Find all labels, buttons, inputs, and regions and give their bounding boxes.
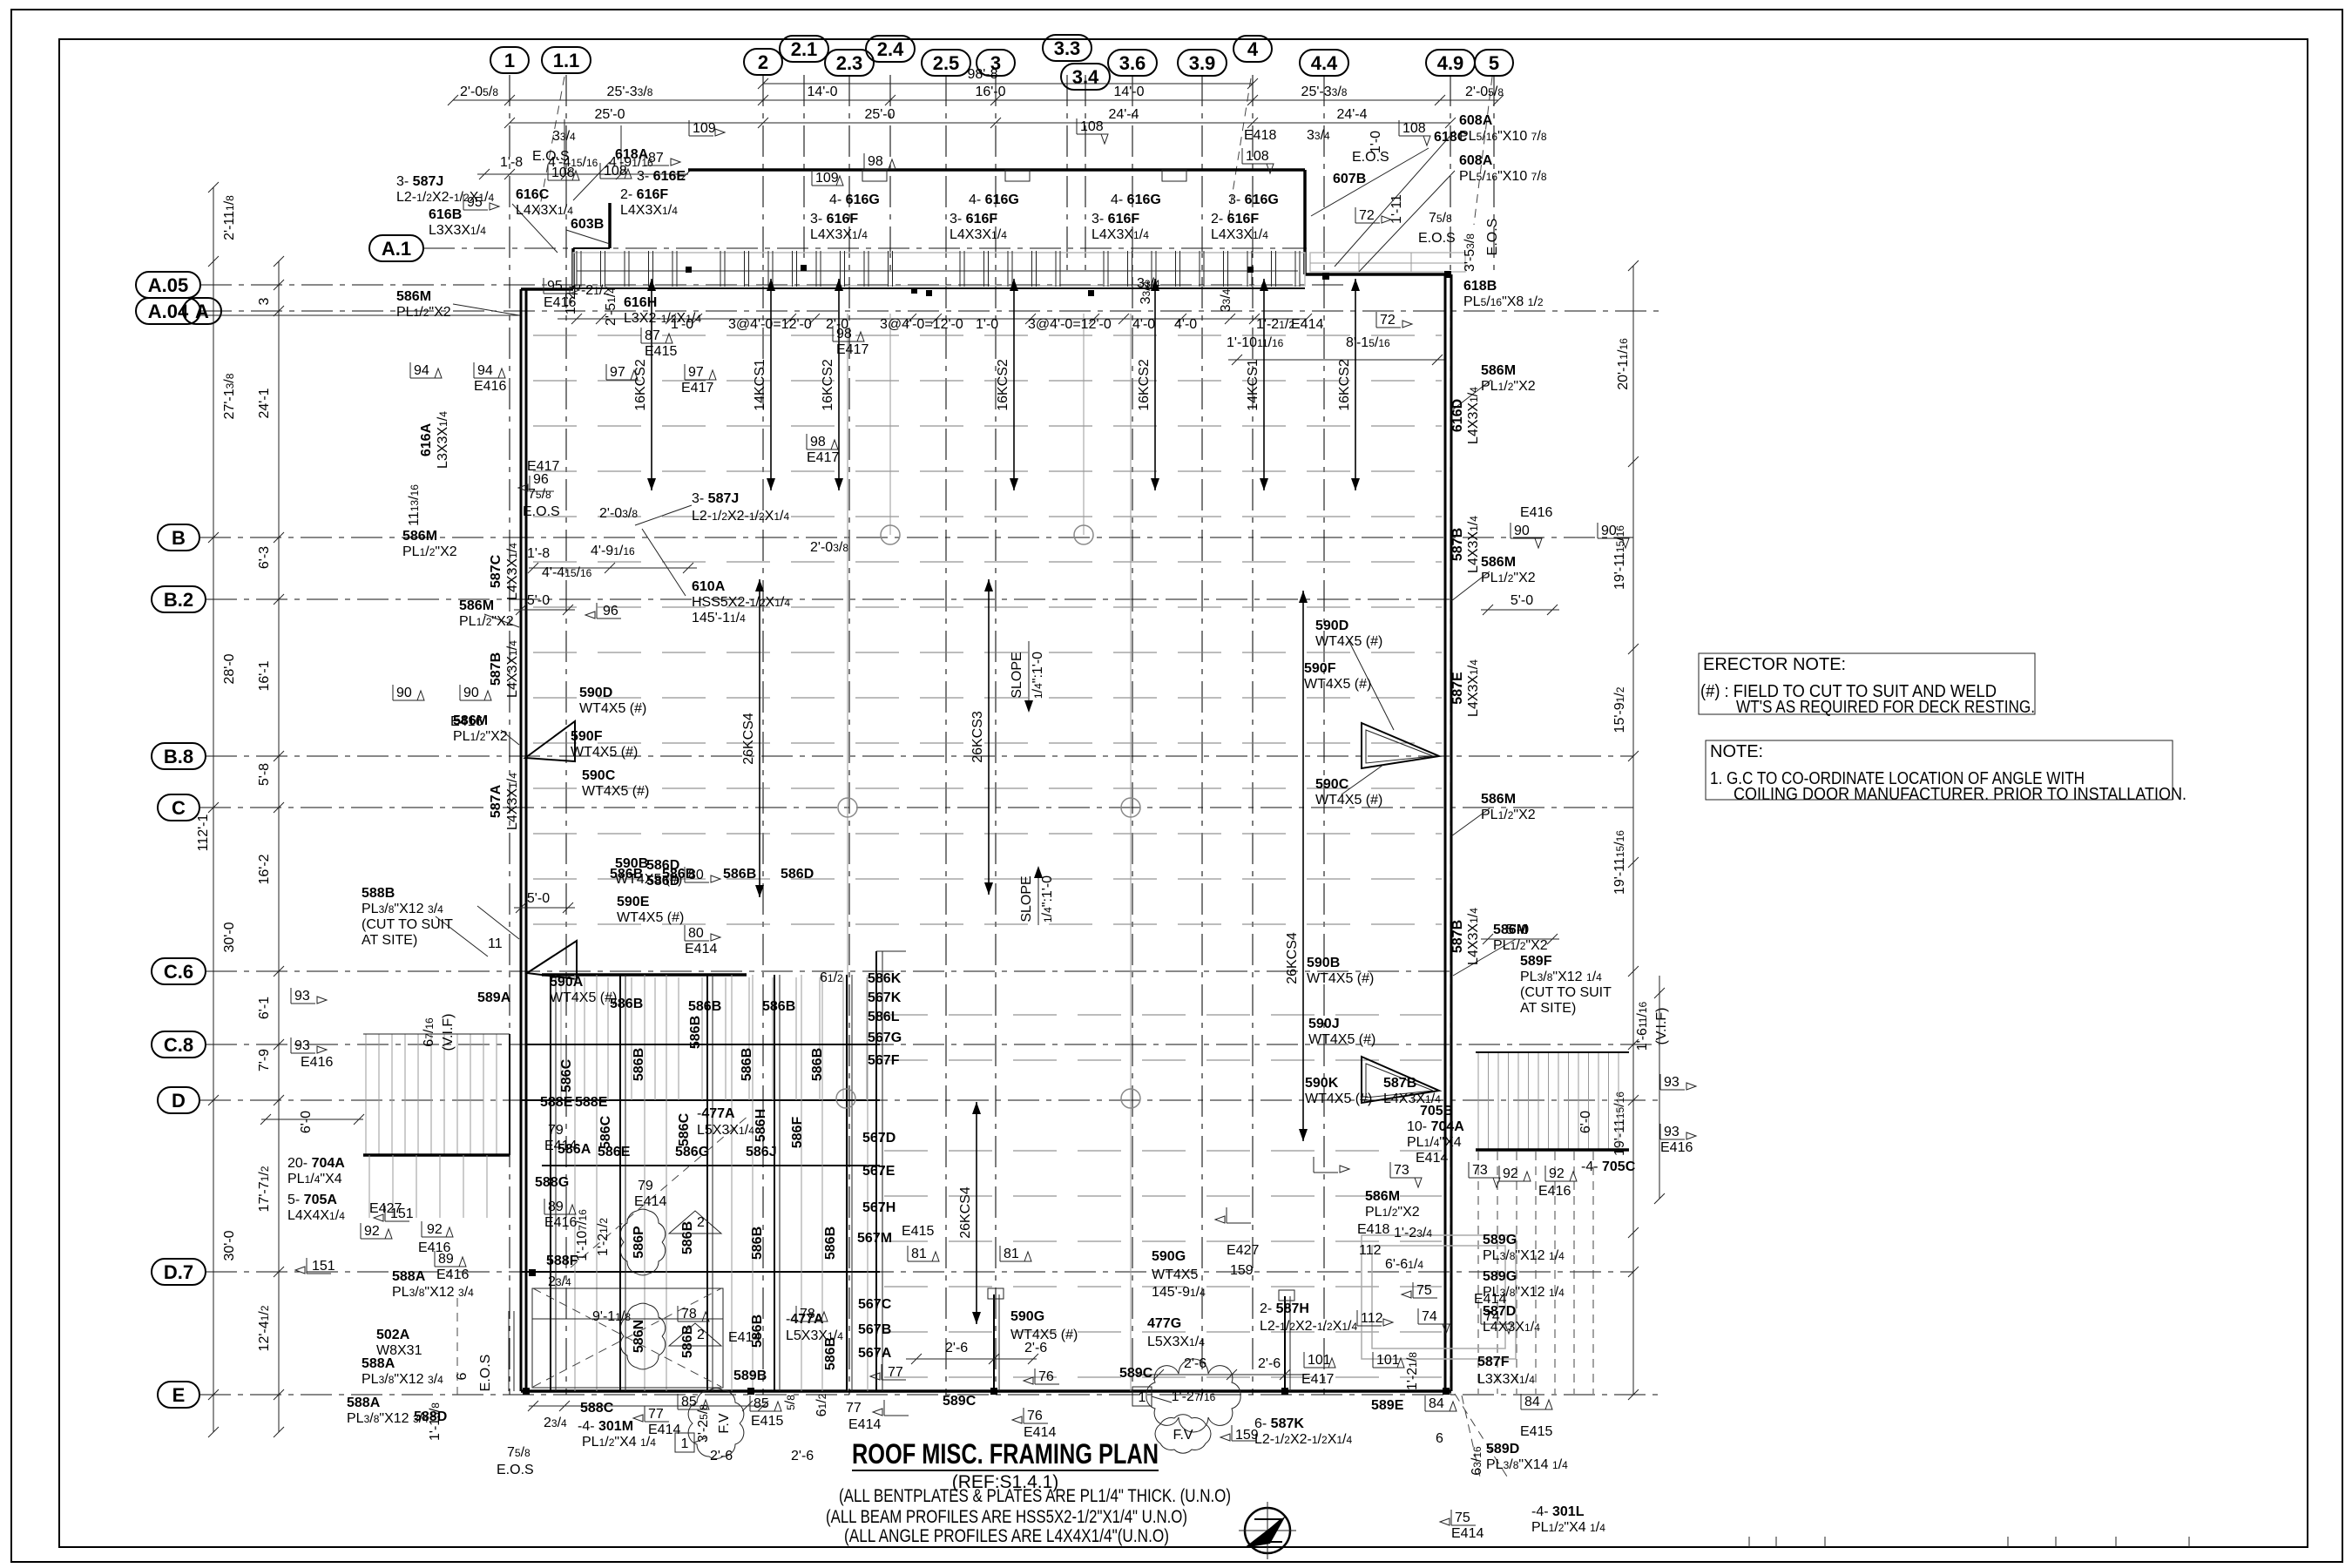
svg-text:98: 98 [836,327,852,341]
svg-text:75/8: 75/8 [528,487,551,502]
svg-text:25'-33/8: 25'-33/8 [1301,84,1348,99]
svg-text:16KCS2: 16KCS2 [821,359,835,411]
svg-text:567M: 567M [857,1231,892,1246]
svg-text:26KCS4: 26KCS4 [741,713,756,765]
svg-text:588G: 588G [535,1175,569,1190]
svg-text:2'-6: 2'-6 [710,1449,733,1463]
svg-text:616D: 616D [1450,399,1465,432]
svg-text:PL1/2"X2: PL1/2"X2 [1481,379,1536,394]
svg-text:95: 95 [547,279,563,294]
svg-text:74: 74 [1422,1309,1437,1324]
svg-text:2'-03/8: 2'-03/8 [810,540,848,555]
svg-text:E.O.S: E.O.S [1418,231,1456,246]
svg-text:586N: 586N [632,1320,646,1353]
svg-text:72: 72 [1380,313,1396,328]
interior beam lines [847,314,848,1391]
svg-text:16'-2: 16'-2 [257,854,272,884]
svg-text:588E: 588E [575,1095,608,1110]
svg-text:3- 616F: 3- 616F [810,212,858,226]
svg-text:2.5: 2.5 [933,52,960,74]
svg-text:4'-0: 4'-0 [1174,317,1197,332]
svg-text:101: 101 [1308,1353,1331,1368]
svg-text:PL3/8"X12 3/4: PL3/8"X12 3/4 [362,1372,443,1387]
svg-text:L4X3X1/4: L4X3X1/4 [1466,387,1481,444]
svg-text:E.O.S: E.O.S [497,1463,534,1477]
svg-text:WT4X5 (#): WT4X5 (#) [571,745,638,760]
svg-text:5'-0: 5'-0 [1511,593,1533,608]
svg-text:PL1/2"X2: PL1/2"X2 [1481,808,1536,822]
svg-text:3@4'-0=12'-0: 3@4'-0=12'-0 [880,317,963,332]
svg-text:89: 89 [548,1200,564,1214]
svg-text:1'-15/8: 1'-15/8 [428,1402,443,1441]
svg-text:73: 73 [1394,1163,1409,1178]
svg-text:E.O.S: E.O.S [523,504,560,519]
svg-text:93: 93 [1664,1075,1680,1090]
svg-text:L4X3X1/4: L4X3X1/4 [1466,659,1481,717]
svg-text:19'-1115/16: 19'-1115/16 [1612,1092,1627,1156]
svg-text:589G: 589G [1483,1269,1517,1284]
svg-text:6'-3: 6'-3 [257,546,272,569]
svg-text:1'-2: 1'-2 [564,292,578,314]
svg-text:90: 90 [1601,524,1617,538]
svg-text:586P: 586P [632,1226,646,1259]
svg-text:26KCS3: 26KCS3 [970,711,985,763]
svg-text:590K: 590K [1305,1076,1339,1091]
svg-text:28'-0: 28'-0 [222,653,237,684]
svg-text:587B: 587B [1450,920,1465,953]
svg-text:590C: 590C [1315,777,1349,792]
svg-text:586B: 586B [823,1337,838,1370]
svg-text:586B: 586B [823,1227,838,1260]
svg-text:PL1/4"X4: PL1/4"X4 [287,1172,342,1186]
svg-text:586B: 586B [688,1016,703,1049]
svg-text:586M: 586M [1493,923,1528,937]
slope annotations [1028,641,1030,707]
svg-text:3.3: 3.3 [1054,37,1081,59]
svg-text:145'-11/4: 145'-11/4 [692,611,746,625]
svg-text:586M: 586M [1365,1189,1400,1204]
svg-text:4.4: 4.4 [1311,52,1338,74]
svg-text:E415: E415 [751,1414,783,1429]
svg-text:PL3/8"X14 1/4: PL3/8"X14 1/4 [1486,1457,1568,1472]
svg-text:7'-9: 7'-9 [257,1049,272,1071]
joist designation arrows [651,279,652,490]
586 joist framing area [542,973,747,977]
svg-text:586E: 586E [598,1145,631,1159]
svg-text:4: 4 [1247,38,1259,60]
svg-text:586B: 586B [740,1048,754,1081]
svg-text:589B: 589B [733,1369,767,1383]
svg-text:(CUT TO SUIT: (CUT TO SUIT [362,917,453,932]
svg-text:80: 80 [688,926,704,941]
svg-text:E417: E417 [681,381,713,395]
svg-text:E415: E415 [902,1224,934,1239]
svg-text:E414: E414 [1474,1292,1506,1307]
column circles [881,525,900,544]
svg-text:586M: 586M [1481,792,1516,807]
svg-text:17'-71/2: 17'-71/2 [257,1166,272,1212]
svg-text:PL1/2"X2: PL1/2"X2 [402,544,457,559]
svg-text:E416: E416 [474,379,506,394]
svg-text:145'-91/4: 145'-91/4 [1152,1285,1206,1300]
svg-text:96: 96 [603,604,618,618]
svg-text:L4X3X1/4: L4X3X1/4 [505,773,520,830]
svg-text:92: 92 [427,1222,443,1237]
svg-text:PL3/8"X12 3/4: PL3/8"X12 3/4 [362,902,443,916]
svg-text:586B: 586B [680,1221,695,1254]
svg-text:63/16: 63/16 [1470,1446,1484,1476]
svg-text:610A: 610A [692,579,726,594]
left dimension chains [213,187,214,1432]
svg-text:33/4: 33/4 [552,129,576,144]
svg-text:590D: 590D [579,686,612,700]
svg-text:2- 616F: 2- 616F [620,187,668,202]
svg-text:587C: 587C [489,554,504,588]
svg-text:587F: 587F [1477,1355,1510,1369]
svg-text:E427: E427 [1227,1243,1259,1258]
svg-text:108: 108 [551,166,575,180]
svg-text:10- 704A: 10- 704A [1407,1119,1464,1134]
svg-text:586B: 586B [723,867,756,882]
svg-text:14'-0: 14'-0 [1113,84,1144,99]
svg-text:6'-1: 6'-1 [257,997,272,1019]
svg-text:567E: 567E [862,1164,896,1179]
svg-text:WT4X5 (#): WT4X5 (#) [579,701,646,716]
svg-text:L4X3X1/4: L4X3X1/4 [1092,227,1149,242]
svg-text:80: 80 [688,868,704,882]
svg-text:567A: 567A [858,1346,892,1361]
svg-text:D: D [172,1090,186,1112]
svg-text:90: 90 [463,686,479,700]
svg-text:5'-8: 5'-8 [257,763,272,786]
svg-text:L4X3X1/4: L4X3X1/4 [1466,516,1481,573]
svg-text:151: 151 [390,1206,414,1221]
svg-text:587A: 587A [489,784,504,818]
svg-text:E418: E418 [1244,128,1276,143]
svg-text:76: 76 [1027,1409,1043,1423]
svg-text:588A: 588A [392,1269,426,1284]
svg-text:2.4: 2.4 [877,38,904,60]
svg-text:6: 6 [455,1372,470,1380]
svg-text:75/8: 75/8 [1429,211,1452,226]
svg-text:L4X3X1/4: L4X3X1/4 [516,203,573,218]
svg-text:589C: 589C [943,1394,977,1409]
svg-text:D.7: D.7 [164,1261,193,1283]
erector note box [1699,653,2035,714]
svg-text:2'-51/4: 2'-51/4 [604,287,618,326]
svg-text:90: 90 [1514,524,1530,538]
svg-text:3- 616E: 3- 616E [637,169,686,184]
svg-text:586K: 586K [868,971,902,986]
svg-text:16KCS2: 16KCS2 [633,359,648,411]
svg-text:8'-15/16: 8'-15/16 [1346,335,1390,350]
svg-text:75: 75 [1455,1511,1470,1525]
svg-text:2'-111/8: 2'-111/8 [222,195,237,240]
svg-text:AT SITE): AT SITE) [1520,1001,1576,1016]
svg-text:567D: 567D [862,1131,896,1146]
svg-text:586J: 586J [746,1145,777,1159]
svg-text:A.1: A.1 [382,238,411,260]
svg-text:81: 81 [911,1247,927,1261]
svg-text:WT4X5 (#): WT4X5 (#) [1305,1092,1372,1106]
svg-text:590F: 590F [1304,661,1336,676]
svg-text:586H: 586H [754,1109,768,1142]
svg-text:587B: 587B [1383,1076,1416,1091]
svg-text:16KCS2: 16KCS2 [1337,359,1352,411]
svg-text:2.3: 2.3 [836,52,863,74]
svg-text:PL5/16"X10 7/8: PL5/16"X10 7/8 [1459,129,1547,144]
svg-text:85: 85 [681,1395,697,1409]
svg-text:2'-6: 2'-6 [1184,1356,1206,1371]
svg-text:PL1/2"X2: PL1/2"X2 [1493,938,1548,953]
svg-text:3- 616F: 3- 616F [950,212,997,226]
svg-text:586L: 586L [868,1010,900,1024]
svg-text:PL1/2"X4 1/4: PL1/2"X4 1/4 [1531,1520,1605,1535]
svg-text:1'-8: 1'-8 [527,546,550,561]
svg-text:L2-1/2X2-1/2X1/4: L2-1/2X2-1/2X1/4 [1254,1432,1353,1447]
svg-text:L3X3X1/4: L3X3X1/4 [436,411,450,469]
svg-text:93: 93 [294,989,310,1004]
svg-text:85: 85 [754,1396,769,1411]
svg-text:3: 3 [257,297,272,305]
svg-text:6'-0: 6'-0 [299,1111,314,1133]
svg-text:2'-05/8: 2'-05/8 [460,84,498,99]
svg-text:30'-0: 30'-0 [222,922,237,952]
svg-text:608A: 608A [1459,153,1493,168]
svg-text:1'-21/8: 1'-21/8 [1405,1352,1420,1390]
svg-text:-477A: -477A [786,1312,824,1327]
svg-text:616B: 616B [429,207,462,222]
svg-text:5/8: 5/8 [783,1395,798,1410]
svg-text:112'-1: 112'-1 [196,814,211,852]
svg-text:5: 5 [1489,52,1499,74]
svg-text:-4- 705C: -4- 705C [1581,1159,1636,1174]
svg-text:92: 92 [1503,1166,1518,1181]
svg-text:588E: 588E [540,1095,573,1110]
svg-text:11: 11 [488,936,503,951]
svg-text:2.1: 2.1 [791,38,818,60]
svg-text:590G: 590G [1010,1309,1044,1324]
svg-text:108: 108 [1246,149,1269,164]
svg-text:E.O.S: E.O.S [478,1355,493,1392]
svg-text:1: 1 [681,1436,689,1451]
svg-text:603B: 603B [571,217,604,232]
svg-text:3- 616F: 3- 616F [1092,212,1139,226]
svg-text:77: 77 [648,1407,664,1422]
svg-text:E416: E416 [1660,1140,1693,1155]
roof deck lines [533,335,1442,336]
svg-text:L4X3X1/4: L4X3X1/4 [810,227,868,242]
svg-text:25'-0: 25'-0 [864,107,895,122]
svg-text:2'-05/8: 2'-05/8 [1465,84,1504,99]
svg-text:586M: 586M [402,529,437,544]
svg-text:L4X3X1/4: L4X3X1/4 [505,640,520,698]
svg-text:586G: 586G [675,1145,709,1159]
svg-text:2: 2 [697,1215,705,1230]
svg-text:PL5/16"X10 7/8: PL5/16"X10 7/8 [1459,169,1547,184]
svg-text:PL3/8"X12 1/4: PL3/8"X12 1/4 [1483,1248,1565,1263]
svg-text:567B: 567B [858,1322,891,1337]
svg-text:(V.I.F): (V.I.F) [1654,1008,1669,1045]
svg-text:588A: 588A [362,1356,395,1371]
svg-text:1'-8: 1'-8 [500,155,523,170]
svg-text:14'-0: 14'-0 [807,84,837,99]
svg-text:A.04: A.04 [148,301,189,322]
svg-text:23/4: 23/4 [548,1274,571,1289]
svg-text:3- 616G: 3- 616G [1228,193,1279,207]
svg-text:E414: E414 [648,1423,680,1437]
svg-text:151: 151 [312,1259,335,1274]
south-east detail rects [1362,1235,1516,1359]
svg-text:16KCS2: 16KCS2 [996,359,1010,411]
svg-text:586M: 586M [1481,363,1516,378]
svg-text:WT'S AS REQUIRED FOR DECK REST: WT'S AS REQUIRED FOR DECK RESTING. [1736,698,2035,717]
svg-text:2: 2 [758,51,768,73]
svg-text:3@4'-0=12'-0: 3@4'-0=12'-0 [1028,317,1112,332]
svg-text:2'-6: 2'-6 [945,1341,968,1355]
svg-text:33/4: 33/4 [1307,128,1330,143]
svg-text:78: 78 [681,1307,697,1321]
svg-text:616H: 616H [624,295,657,310]
svg-text:3@4'-0=12'-0: 3@4'-0=12'-0 [728,317,812,332]
svg-text:E418: E418 [1357,1222,1389,1237]
svg-text:108: 108 [604,164,627,179]
svg-text:E414: E414 [1451,1526,1484,1541]
svg-text:567K: 567K [868,990,902,1005]
svg-text:616A: 616A [419,422,434,456]
svg-text:590C: 590C [582,768,616,783]
svg-text:(ALL BENTPLATES & PLATES ARE: (ALL BENTPLATES & PLATES ARE PL1/4" THIC… [839,1486,1231,1506]
svg-text:14KCS1: 14KCS1 [1246,359,1260,411]
svg-text:E416: E416 [1520,505,1552,520]
svg-text:4- 616G: 4- 616G [829,193,880,207]
svg-text:586B: 586B [632,1048,646,1081]
svg-text:98'-8: 98'-8 [967,67,997,82]
svg-text:E416: E416 [436,1267,469,1282]
svg-text:L4X3X1/4: L4X3X1/4 [1466,908,1481,965]
svg-text:30'-0: 30'-0 [222,1230,237,1260]
svg-text:587B: 587B [1450,528,1465,561]
revision clouds [620,1209,665,1275]
svg-text:PL1/2"X2: PL1/2"X2 [1481,571,1536,585]
svg-text:586B: 586B [610,867,643,882]
svg-text:589F: 589F [1520,954,1552,969]
svg-text:E414: E414 [1291,317,1323,332]
svg-text:4.9: 4.9 [1437,52,1464,74]
svg-text:586C: 586C [559,1058,574,1092]
svg-text:705B: 705B [1420,1104,1453,1119]
svg-text:6'-61/4: 6'-61/4 [1385,1257,1423,1272]
svg-text:1: 1 [1139,1390,1146,1405]
svg-text:94: 94 [477,363,493,378]
svg-text:589D: 589D [1486,1442,1519,1456]
svg-text:WT4X5 (#): WT4X5 (#) [1304,677,1371,692]
svg-text:-4- 301L: -4- 301L [1531,1504,1585,1519]
svg-text:24'-4: 24'-4 [1108,107,1139,122]
svg-text:590F: 590F [571,729,603,744]
svg-text:98: 98 [810,435,826,449]
svg-text:PL3/8"X12 3/4: PL3/8"X12 3/4 [392,1285,474,1300]
svg-text:5'-0: 5'-0 [527,891,550,906]
svg-text:1'-107/16: 1'-107/16 [575,1209,590,1261]
svg-text:589A: 589A [477,990,511,1005]
svg-text:WT4X5 (#): WT4X5 (#) [1315,634,1382,649]
svg-text:WT4X5 (#): WT4X5 (#) [617,910,684,925]
svg-text:9'-11/8: 9'-11/8 [592,1309,631,1324]
svg-text:(V.I.F): (V.I.F) [441,1014,456,1051]
svg-text:1'-27/16: 1'-27/16 [1172,1389,1216,1404]
svg-text:1'-21/2: 1'-21/2 [1256,317,1294,332]
svg-text:567G: 567G [868,1031,902,1045]
svg-text:3'-53/8: 3'-53/8 [1463,233,1477,272]
svg-text:15'-91/2: 15'-91/2 [1612,686,1627,733]
svg-text:25'-0: 25'-0 [594,107,625,122]
svg-text:3.4: 3.4 [1072,66,1099,88]
svg-text:586B: 586B [762,999,795,1014]
svg-text:C.8: C.8 [164,1034,193,1056]
svg-text:94: 94 [414,363,429,378]
svg-text:L5X3X1/4: L5X3X1/4 [697,1123,754,1138]
svg-text:20'-11/16: 20'-11/16 [1616,338,1631,390]
svg-text:112: 112 [1359,1243,1382,1258]
svg-text:PL3/8"X12 1/4: PL3/8"X12 1/4 [1520,970,1602,984]
svg-text:2'-6: 2'-6 [791,1449,814,1463]
svg-text:3.9: 3.9 [1189,52,1216,74]
svg-text:L3X2-1/2X1/4: L3X2-1/2X1/4 [624,311,701,326]
svg-text:L4X3X1/4: L4X3X1/4 [1211,227,1268,242]
svg-text:25'-33/8: 25'-33/8 [607,84,653,99]
svg-text:E416: E416 [1538,1184,1571,1199]
svg-text:1'-611/16: 1'-611/16 [1635,1001,1650,1051]
svg-text:20- 704A: 20- 704A [287,1156,345,1171]
svg-text:77: 77 [846,1401,862,1416]
svg-text:WT4X5 (#): WT4X5 (#) [1315,793,1382,808]
svg-text:E416: E416 [544,1215,577,1230]
svg-text:587B: 587B [489,652,504,686]
svg-text:B.8: B.8 [164,746,193,767]
svg-text:4'-415/16: 4'-415/16 [542,565,592,580]
svg-text:E414: E414 [544,1139,577,1153]
svg-text:590D: 590D [1315,618,1348,633]
svg-text:2- 587H: 2- 587H [1260,1301,1309,1316]
svg-text:1.1: 1.1 [553,50,580,71]
svg-text:E417: E417 [807,450,839,465]
svg-text:E415: E415 [1520,1424,1552,1439]
svg-text:4'-91/16: 4'-91/16 [591,544,635,558]
svg-text:F.V: F.V [717,1413,732,1433]
svg-text:33/4: 33/4 [1219,288,1233,312]
svg-text:33/4: 33/4 [1139,280,1153,304]
svg-text:PL1/2"X2: PL1/2"X2 [1365,1205,1420,1220]
svg-text:75: 75 [1416,1283,1432,1298]
horizontal grid lines [423,247,1307,249]
svg-text:588A: 588A [347,1396,381,1410]
svg-text:E417: E417 [1301,1372,1334,1387]
svg-text:4- 616G: 4- 616G [1111,193,1161,207]
svg-text:590A: 590A [550,975,584,990]
svg-text:567H: 567H [862,1200,896,1215]
svg-text:WT4X5 (#): WT4X5 (#) [582,784,649,799]
svg-text:589E: 589E [1371,1398,1404,1413]
west deck hatch 704A [365,1034,367,1155]
svg-text:95: 95 [467,195,483,210]
svg-text:2: 2 [697,1328,705,1342]
svg-text:E417: E417 [836,342,868,357]
svg-text:E: E [172,1384,186,1406]
svg-text:26KCS4: 26KCS4 [1285,932,1300,984]
svg-text:108: 108 [1080,119,1104,134]
svg-text:(ALL BEAM PROFILES ARE HSS5X2-: (ALL BEAM PROFILES ARE HSS5X2-1/2"X1/4" … [826,1507,1187,1527]
